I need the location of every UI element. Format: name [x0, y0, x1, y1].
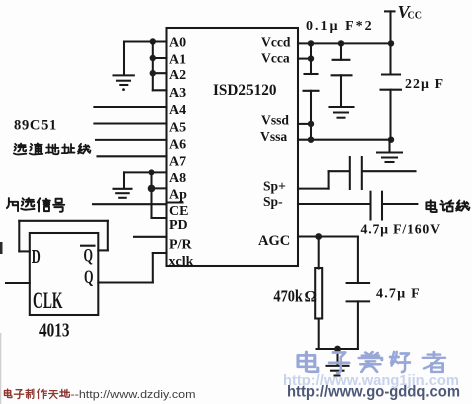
resistor R1 470k body — [315, 268, 322, 319]
IC U1 ISD25120 body — [167, 28, 299, 266]
svg-text:89C51: 89C51 — [14, 118, 57, 134]
wire A7 line — [98, 155, 167, 157]
scan artifact left edge — [0, 242, 3, 254]
capacitor C5 series — [371, 192, 383, 220]
svg-text:A6: A6 — [169, 137, 186, 152]
wire A2 pin line — [153, 72, 167, 74]
wire CE line (chip select) — [93, 203, 167, 205]
wire A0 pin line — [124, 40, 167, 42]
wire Vssa pin line — [298, 139, 391, 141]
svg-text:4.7µ F: 4.7µ F — [376, 287, 421, 302]
capacitor C4 series — [350, 157, 362, 189]
wire Qbar feedback: top across — [19, 220, 108, 222]
wire Qbar feedback: down left — [18, 221, 20, 252]
wire ground stem below Vssa — [388, 140, 390, 152]
ground G4 — [377, 153, 402, 163]
wire Qbar feedback: up — [107, 221, 109, 251]
svg-text:P/R: P/R — [169, 238, 192, 253]
ground G3 — [330, 107, 354, 118]
svg-text:ISD25120: ISD25120 — [213, 82, 277, 99]
svg-text:0.1µ F*2: 0.1µ F*2 — [306, 19, 374, 34]
node junction AGC/R1 — [315, 233, 322, 240]
svg-text:Vssd: Vssd — [261, 113, 289, 128]
wire A4 line — [94, 106, 166, 108]
node junction Vssa/C3 — [388, 137, 394, 143]
svg-text:Sp-: Sp- — [263, 194, 283, 209]
wire C2 top lead — [340, 43, 342, 59]
wire A3 pin line — [153, 89, 167, 91]
wire R1 bottom lead — [318, 319, 320, 350]
svg-text:http://www.go-gddq.com: http://www.go-gddq.com — [287, 384, 460, 401]
svg-text:CC: CC — [408, 11, 422, 22]
node junction Vccd/C1 — [308, 40, 314, 46]
node junction Vccd/Vcc — [388, 40, 394, 46]
svg-text:A4: A4 — [169, 103, 186, 118]
wire Sp- pin line — [298, 203, 370, 205]
flip-flop U2 4013 body — [30, 233, 99, 315]
wire Sp+ step up — [328, 171, 330, 188]
ground G2 — [114, 189, 132, 198]
wire CLK input — [6, 282, 30, 284]
watermark 电子爱好者 — [298, 352, 445, 373]
wire Q output line of 4013 — [98, 281, 153, 283]
node junction A8/bus2 — [149, 169, 155, 175]
wire Vcc vertical — [389, 11, 391, 74]
node junction A0/bus — [150, 38, 156, 44]
wire C3 bottom lead — [389, 90, 391, 140]
svg-text:CLK: CLK — [33, 288, 63, 313]
label 选通地址线 (address strobe lines) — [14, 143, 91, 154]
node junction A2/bus — [150, 70, 156, 76]
wire Vssd pin line — [298, 123, 311, 125]
wire Qbar feedback: out right — [98, 249, 108, 251]
label 片选信号 (chip select signal) — [7, 198, 64, 212]
wire A8 pin line — [124, 171, 167, 173]
wire C2 bottom lead — [340, 75, 342, 106]
wire C1 top lead — [310, 43, 312, 74]
wire C1 bottom lead — [310, 91, 312, 140]
wire xclk elbow horizontal — [153, 252, 167, 254]
svg-text:Sp+: Sp+ — [263, 179, 286, 194]
svg-text:Ap: Ap — [169, 188, 187, 203]
wire C4 to right — [363, 170, 416, 172]
wire xclk elbow vertical — [152, 253, 154, 283]
svg-text:A7: A7 — [169, 154, 186, 169]
wire Vcca pin line — [298, 58, 311, 60]
svg-text:Vccd: Vccd — [261, 35, 291, 50]
svg-text:D: D — [32, 247, 41, 268]
capacitor C2 0.1uF — [332, 60, 352, 76]
node junction Vssa/C1 — [308, 137, 314, 143]
wire PD elbow — [152, 217, 167, 219]
wire D input — [19, 250, 30, 252]
svg-text:4.7µ F/160V: 4.7µ F/160V — [361, 222, 441, 237]
ground G1 — [114, 75, 134, 85]
capacitor C6 4.7uF — [347, 283, 370, 301]
node junction Vcca/C1 — [308, 55, 314, 61]
wire ground stem bottom — [336, 349, 338, 366]
node junction A1/bus — [150, 55, 156, 61]
node junction Ap/bus2 — [148, 185, 156, 193]
scan edge artifact left — [0, 333, 1, 404]
capacitor C3 22uF — [381, 75, 402, 90]
wire C6 bottom lead — [357, 301, 359, 349]
wire Ap pin line — [152, 187, 167, 189]
svg-text:A8: A8 — [169, 171, 186, 186]
wire A5 line — [94, 122, 166, 124]
wire P/R stub — [134, 236, 167, 238]
svg-text:CE: CE — [169, 204, 188, 219]
node junction Vssd — [308, 121, 314, 127]
svg-text:Ω: Ω — [305, 289, 317, 306]
svg-text:A2: A2 — [169, 68, 186, 83]
svg-text:AGC: AGC — [258, 233, 290, 249]
wire R1 top lead — [318, 237, 320, 269]
power Vcc tick — [385, 10, 395, 12]
wire ground stem2 — [123, 172, 125, 188]
svg-text:A3: A3 — [169, 86, 186, 101]
svg-text:A1: A1 — [169, 52, 186, 67]
svg-text:Vssa: Vssa — [260, 129, 287, 144]
svg-text:PD: PD — [169, 218, 188, 233]
svg-text:22µ F: 22µ F — [405, 76, 444, 91]
wire address bus A0-A3 vertical — [152, 42, 154, 91]
wire ground stem from A0 line — [123, 42, 125, 75]
svg-text:470k: 470k — [273, 287, 303, 306]
svg-text:Q: Q — [84, 247, 94, 267]
svg-text:A0: A0 — [169, 35, 186, 50]
wire A6 line — [96, 139, 167, 141]
wire Vccd pin line — [298, 42, 391, 44]
wire C5 to right — [383, 203, 417, 205]
ground G5 — [327, 366, 349, 376]
wire Sp+ to C4 — [329, 170, 349, 172]
svg-text:4013: 4013 — [39, 321, 70, 342]
wire Sp+ pin line — [298, 188, 329, 190]
svg-text:xclk: xclk — [169, 255, 194, 270]
capacitor C1 0.1uF — [304, 74, 319, 91]
svg-text:Q: Q — [84, 268, 94, 288]
wire bottom net R1-C6 — [317, 348, 358, 350]
wire A1 pin line — [153, 57, 167, 59]
credit line 电子制作天地 (red) — [4, 389, 69, 399]
svg-text:--http://www.dzdiy.com: --http://www.dzdiy.com — [71, 389, 196, 401]
node junction bottom/ground — [334, 346, 341, 353]
wire C6 top lead — [357, 237, 359, 284]
svg-text:A5: A5 — [169, 120, 186, 135]
node junction Vccd/C2 — [338, 40, 344, 46]
wire AGC pin line — [298, 235, 358, 237]
label 电话线 (telephone line) — [426, 200, 469, 212]
svg-text:Vcca: Vcca — [261, 50, 290, 65]
wire bus2 vertical A8-Ap-PD — [150, 172, 152, 218]
